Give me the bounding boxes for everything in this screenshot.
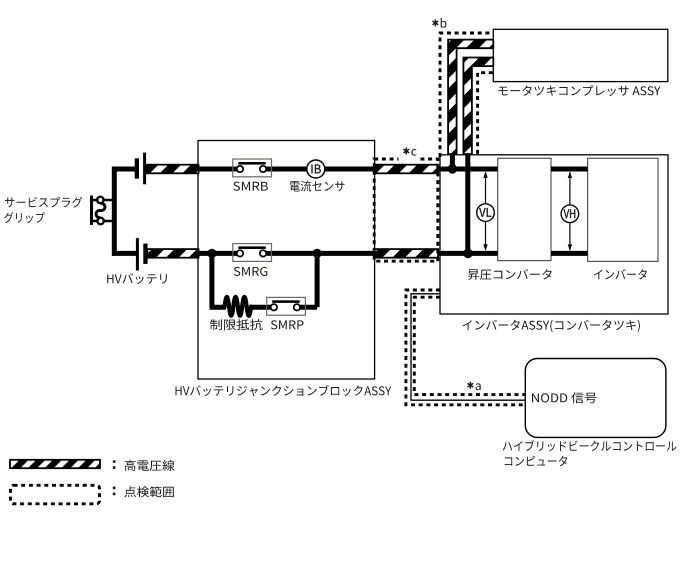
wire: compressor phase B drop: [465, 152, 470, 252]
label HV battery: [107, 273, 167, 284]
relay SMRG left contact: [237, 250, 243, 256]
wire: bottom rail boost converter to inverter: [551, 251, 588, 256]
wire: top rail boost converter to inverter: [551, 167, 588, 172]
voltage measure VH arrow line: [569, 172, 571, 250]
label service plug line2: [4, 212, 45, 223]
wire: bottom rail into boost converter: [438, 251, 498, 256]
relay SMRG box: [233, 244, 272, 262]
relay SMRG contact bar: [238, 246, 265, 249]
service plug grip top contact: [97, 197, 103, 203]
label VL: [479, 208, 491, 217]
junction node precharge left: [207, 249, 216, 258]
HV cable: junction block to inverter bottom: [375, 249, 439, 258]
inspection range *a outer boundary: [406, 290, 525, 405]
legend colon 1: [113, 460, 116, 463]
legend text high voltage: [125, 460, 175, 471]
relay SMRP contact bar: [272, 300, 300, 303]
label inverter: [594, 269, 647, 279]
inverter box U-inv: [588, 158, 658, 261]
label junction block: [176, 385, 392, 396]
legend high voltage cable sample: [10, 460, 100, 468]
wire: precharge loop to resistor: [210, 305, 226, 310]
white gap under *c label: [399, 156, 421, 163]
inspection range *c box: [374, 159, 438, 261]
HV battery top cell plates: [135, 158, 139, 178]
relay SMRP box: [267, 297, 306, 315]
voltage measure VL circle: [477, 204, 495, 222]
label IB: [312, 165, 321, 174]
inspection range *b outer boundary: [440, 33, 493, 157]
relay SMRB left contact: [237, 166, 243, 172]
legend text inspection range: [124, 486, 174, 497]
motor compressor ASSY box: [493, 29, 668, 81]
label current sensor: [290, 181, 345, 192]
junction node compressor B: [463, 249, 473, 259]
legend inspection range sample: [11, 485, 100, 504]
relay SMRB box: [233, 159, 272, 177]
wire: battery positive lead: [112, 167, 136, 172]
wire: SMRG to box right edge: [263, 251, 375, 256]
wire: SMRB to current sensor IB: [263, 167, 307, 172]
label SMRG: [234, 267, 267, 276]
HV battery junction block ASSY box: [198, 141, 375, 380]
wire: precharge loop right riser: [315, 251, 320, 307]
service plug grip bottom stub: [93, 220, 114, 223]
NODD signal wire: [411, 294, 525, 400]
label *b: [433, 18, 447, 28]
service plug grip S-link: [96, 203, 105, 217]
HV cable: battery negative to junction block: [147, 249, 198, 258]
label *a: [468, 382, 481, 391]
current sensor IB circle: [307, 160, 325, 178]
HV cable: battery positive to junction block: [146, 165, 199, 174]
wire: top rail into boost converter: [438, 167, 498, 172]
inspection range *a inner boundary: [414, 297, 525, 394]
label boost converter: [468, 269, 552, 280]
wire: box edge to SMRG: [198, 251, 240, 256]
junction node precharge right: [313, 249, 322, 258]
label SMRB: [233, 182, 268, 191]
relay SMRB right contact: [260, 166, 266, 172]
label service plug line1: [5, 197, 82, 208]
hybrid vehicle control computer box: [525, 359, 666, 438]
label *c: [403, 148, 416, 156]
HV cable: compressor phase B (inner L): [463, 58, 493, 155]
service plug grip top stub: [93, 199, 114, 202]
relay SMRP right contact: [294, 304, 300, 310]
service plug grip bar: [90, 196, 93, 225]
wire: SMRP to right riser: [297, 305, 317, 310]
boost converter box U-boost: [498, 158, 551, 260]
label VH: [564, 209, 576, 218]
voltage measure VH circle: [561, 205, 579, 223]
HV cable: junction block to inverter top: [375, 165, 439, 174]
inspection range *b inner boundary: [478, 73, 493, 155]
wire: IB to box right edge: [324, 167, 374, 172]
relay SMRP left contact: [271, 304, 277, 310]
junction node compressor A: [448, 164, 458, 174]
relay SMRG right contact: [260, 250, 266, 256]
relay SMRB contact bar: [238, 162, 265, 165]
label HV control computer line2: [505, 456, 567, 466]
wire: compressor phase A drop: [450, 152, 455, 168]
voltage measure VL arrow line: [485, 172, 487, 250]
wire: precharge loop left riser: [209, 251, 214, 307]
wire: battery negative lead: [112, 251, 137, 256]
label NODD signal: [532, 392, 597, 403]
label inverter assy: [463, 320, 640, 332]
wire: service plug trunk vertical: [112, 167, 117, 256]
service plug grip bottom contact: [97, 218, 103, 224]
inverter ASSY box: [440, 155, 668, 314]
label limiting resistor: [210, 319, 263, 330]
label SMRP: [271, 320, 304, 329]
label motor compressor: [498, 85, 660, 96]
legend colon 2: [113, 487, 116, 490]
wire: box edge to SMRB: [198, 167, 240, 172]
limiting resistor zigzag: [225, 297, 251, 316]
wire: resistor to SMRP: [250, 305, 275, 310]
HV battery bottom cell plates: [136, 238, 139, 270]
HV cable: compressor phase A (outer L): [448, 40, 493, 154]
label HV control computer line1: [503, 440, 677, 451]
